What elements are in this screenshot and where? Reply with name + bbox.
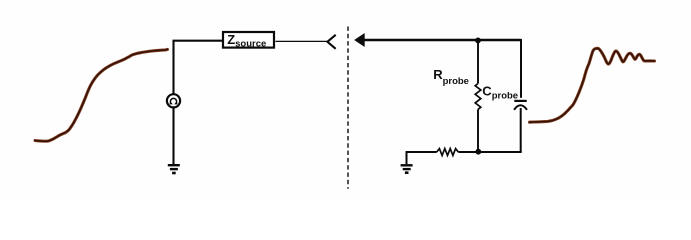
source V1 (circle): [167, 94, 180, 107]
input waveform (rising edge, brown): [35, 49, 168, 141]
wire: Cprobe lower lead: [520, 108, 522, 152]
wire: Rprobe lower lead: [477, 109, 479, 152]
arrow (thick, pointing left): [363, 39, 522, 42]
resistor (horizontal zigzag, ground lead): [437, 149, 459, 156]
wire: Cprobe upper lead (from arrow shaft corner down): [520, 39, 522, 98]
wire: bottom rail left segment with ground drop: [407, 152, 437, 164]
probe tip chevron: [327, 35, 335, 49]
wire: source vertical branch and top horizontal to Zsource box: [174, 41, 223, 164]
source sine glyph: [170, 98, 178, 103]
node junction dot (bottom): [475, 149, 481, 155]
wire: bottom rail right segment: [458, 151, 521, 153]
resistor Zsource (box): [223, 32, 274, 48]
resistor Rprobe (vertical zigzag): [475, 84, 481, 110]
dashed boundary line: [347, 27, 349, 189]
output waveform (rising edge with ringing, brown): [530, 48, 655, 122]
node junction dot (top): [475, 38, 481, 44]
wire: Rprobe upper lead: [477, 40, 479, 84]
ground (left): [168, 165, 180, 173]
capacitor Cprobe: [514, 100, 526, 102]
ground (right): [401, 152, 413, 173]
wire: thin output wire from Zsource box: [276, 40, 328, 42]
